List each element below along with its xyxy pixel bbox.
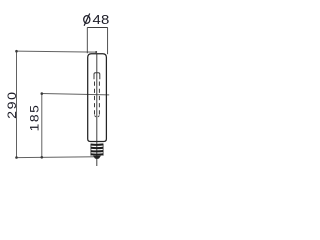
svg-text:290: 290 [5,90,19,119]
svg-text:185: 185 [27,104,41,132]
svg-text:48: 48 [93,12,110,27]
